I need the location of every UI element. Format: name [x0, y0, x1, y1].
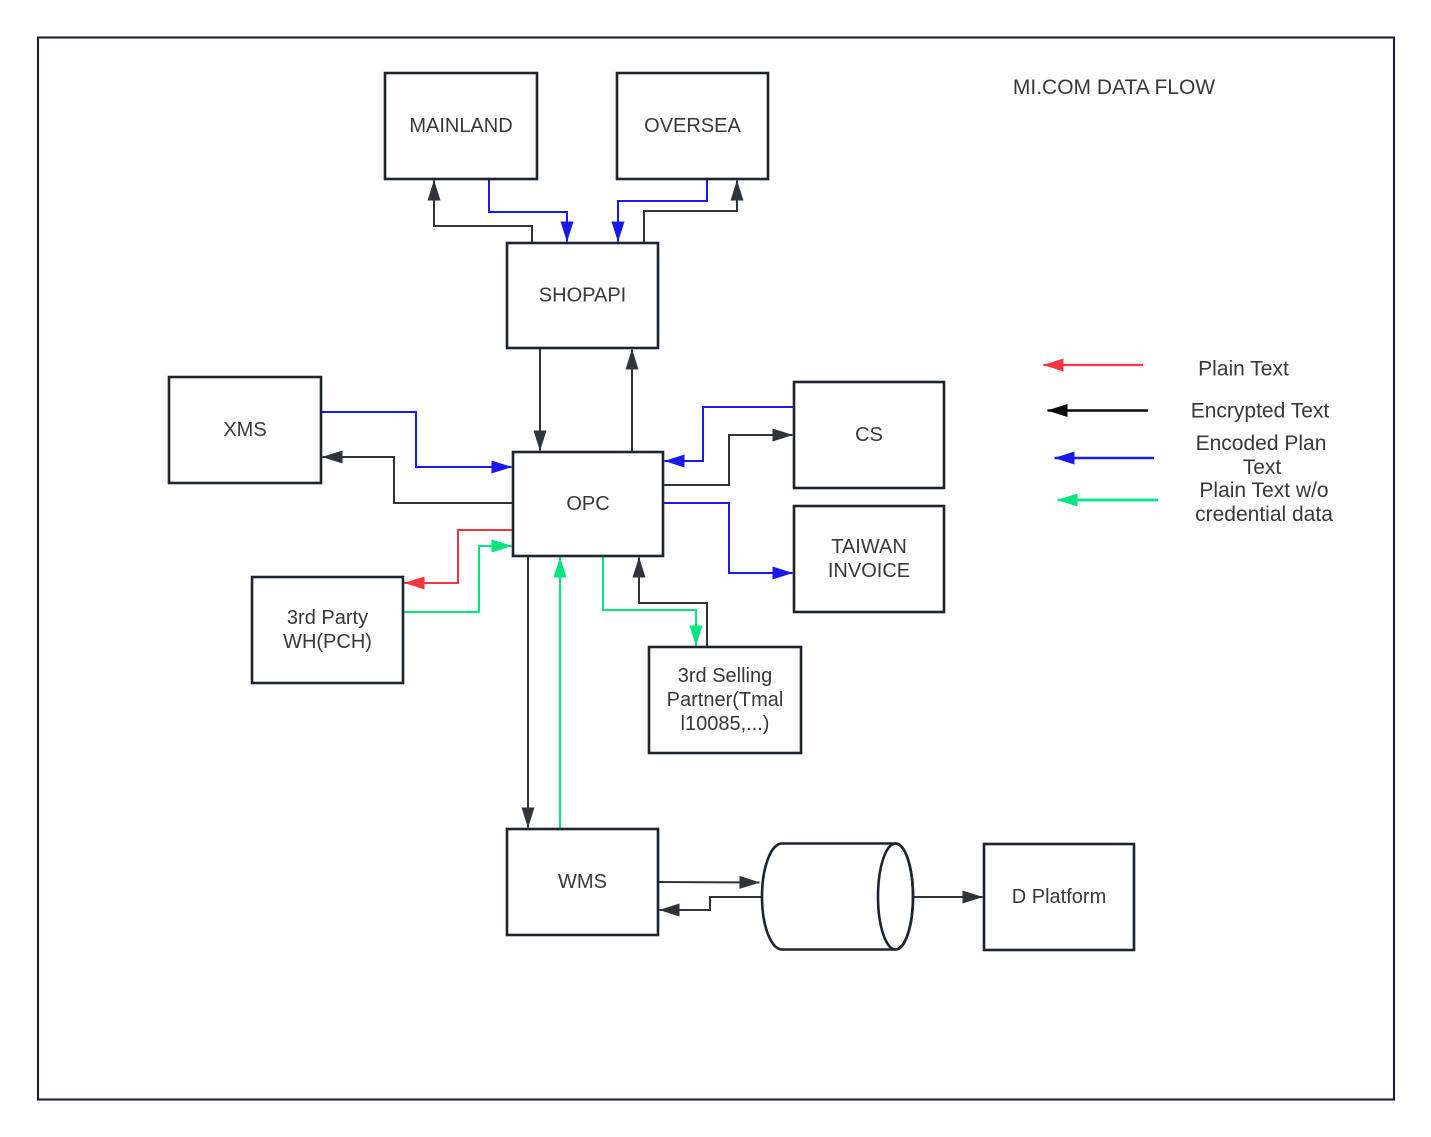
svg-text:3rd Selling: 3rd Selling: [678, 665, 773, 687]
svg-text:Encoded Plan: Encoded Plan: [1196, 432, 1327, 455]
svg-text:l10085,...): l10085,...): [681, 713, 770, 735]
svg-text:credential data: credential data: [1195, 503, 1333, 526]
svg-text:OPC: OPC: [566, 493, 609, 515]
svg-text:CS: CS: [855, 424, 883, 446]
svg-text:SHOPAPI: SHOPAPI: [539, 285, 626, 307]
svg-text:WH(PCH): WH(PCH): [283, 631, 372, 653]
svg-text:Encrypted Text: Encrypted Text: [1191, 400, 1330, 423]
svg-text:XMS: XMS: [223, 419, 266, 441]
svg-text:TAIWAN: TAIWAN: [831, 536, 907, 558]
svg-text:D Platform: D Platform: [1012, 886, 1106, 908]
svg-text:Plain Text: Plain Text: [1198, 358, 1289, 381]
svg-text:MI.COM DATA FLOW: MI.COM DATA FLOW: [1013, 76, 1215, 99]
svg-text:Text: Text: [1243, 456, 1282, 479]
svg-text:3rd Party: 3rd Party: [287, 607, 368, 629]
svg-text:MAINLAND: MAINLAND: [409, 115, 512, 137]
svg-text:WMS: WMS: [558, 871, 607, 893]
svg-text:OVERSEA: OVERSEA: [644, 115, 741, 137]
svg-text:INVOICE: INVOICE: [828, 560, 910, 582]
svg-text:Plain Text w/o: Plain Text w/o: [1199, 479, 1328, 502]
svg-text:Partner(Tmal: Partner(Tmal: [667, 689, 784, 711]
